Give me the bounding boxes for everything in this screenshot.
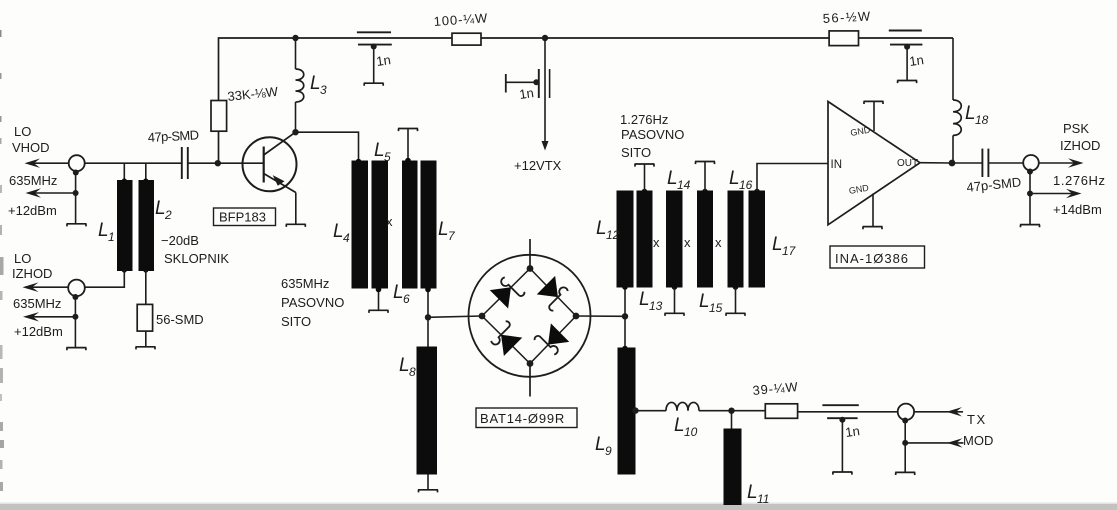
svg-text:+12dBm: +12dBm bbox=[8, 203, 57, 218]
connector J4 PSK bbox=[1023, 155, 1039, 171]
node base junction bbox=[215, 160, 221, 166]
resistor R 100-1/4W bbox=[452, 33, 481, 45]
node J2 ground stem bbox=[72, 294, 78, 300]
svg-text:1n: 1n bbox=[375, 52, 391, 69]
svg-text:L: L bbox=[438, 219, 449, 240]
node L3 top bbox=[292, 35, 298, 41]
resistor 56-SMD bbox=[137, 304, 152, 331]
ground R56 bbox=[136, 347, 156, 350]
ground C4 bbox=[832, 472, 852, 475]
node mixer bottom bbox=[527, 360, 534, 367]
svg-text:VHOD: VHOD bbox=[12, 140, 50, 155]
svg-text:18: 18 bbox=[975, 113, 989, 127]
wire amp bottom gnd pin bbox=[872, 194, 874, 227]
svg-text:TX: TX bbox=[967, 412, 987, 427]
svg-text:PASOVNO: PASOVNO bbox=[281, 295, 344, 310]
svg-text:L: L bbox=[310, 73, 321, 94]
ground L8 bbox=[418, 490, 438, 493]
node OUT junction bbox=[949, 160, 956, 167]
capacitor C4 1n TX bbox=[822, 404, 858, 406]
svg-text:x: x bbox=[715, 235, 722, 250]
svg-text:IZHOD: IZHOD bbox=[1060, 138, 1100, 153]
diode D3 bottom-right bbox=[534, 323, 570, 359]
wire TX arrow bbox=[914, 411, 963, 413]
stripline L4 bbox=[352, 161, 369, 289]
wire +12VTX bbox=[544, 38, 546, 146]
wire L6 top stub bbox=[407, 129, 409, 162]
diode D1 top-left bbox=[490, 274, 526, 310]
resistor R 39-1/4W bbox=[765, 404, 797, 419]
wire MOD arrow bbox=[905, 442, 963, 444]
stripline L7 bbox=[421, 161, 437, 289]
wire +12dBm arrow 2 bbox=[27, 316, 75, 318]
node mixer left bbox=[479, 313, 486, 320]
resistor R 33K-1/8W bbox=[211, 101, 227, 132]
connector J3 TX MOD bbox=[898, 404, 914, 420]
node mixer right junction bbox=[622, 313, 628, 319]
ground J2 bbox=[66, 348, 86, 351]
node +12dBm tap bbox=[73, 190, 79, 196]
label box INA-10386 bbox=[830, 246, 925, 268]
node mixer top bbox=[527, 265, 534, 272]
svg-text:+14dBm: +14dBm bbox=[1053, 202, 1102, 217]
node collector junction wire to L4 bbox=[296, 132, 359, 161]
ground L16 bbox=[726, 313, 746, 316]
ground L14 bbox=[665, 313, 685, 316]
node collector bbox=[292, 129, 298, 135]
label box BAT14-099R bbox=[476, 408, 577, 428]
wire rail corner to L18 bbox=[952, 38, 954, 100]
node +14dBm tap bbox=[1027, 191, 1033, 197]
mixer diamond wires bbox=[482, 269, 576, 364]
node L9 tap bbox=[632, 407, 638, 413]
wire L1 bottom to J2 bbox=[85, 270, 125, 287]
scanner shadow bottom bbox=[0, 504, 1117, 510]
svg-text:SITO: SITO bbox=[281, 314, 311, 329]
wire PSK arrow bbox=[1039, 162, 1080, 164]
stripline L17 bbox=[749, 191, 766, 288]
svg-text:17: 17 bbox=[782, 244, 797, 258]
wire mixer top stub bbox=[529, 239, 531, 269]
ground emitter bbox=[286, 224, 306, 227]
ground L6 bbox=[398, 129, 418, 132]
svg-text:L: L bbox=[772, 234, 783, 255]
stripline L8 bbox=[417, 347, 438, 475]
capacitor C1 47p-SMD bbox=[181, 147, 183, 179]
stripline L12 bbox=[617, 191, 634, 288]
svg-text:L: L bbox=[639, 289, 650, 310]
svg-text:+12dBm: +12dBm bbox=[14, 324, 63, 339]
ground L15 bbox=[695, 162, 715, 165]
wire down to L1 top bbox=[123, 163, 125, 181]
capacitor C6 47p-SMD bbox=[981, 149, 983, 177]
svg-text:16: 16 bbox=[739, 178, 753, 192]
svg-text:14: 14 bbox=[677, 178, 691, 192]
svg-text:15: 15 bbox=[709, 301, 723, 315]
label box BFP183 bbox=[214, 208, 276, 226]
wire L14 bottom stub bbox=[674, 288, 676, 314]
wire L2 bottom to R 56 bbox=[145, 270, 147, 304]
svg-text:9: 9 bbox=[605, 444, 612, 458]
wire R39 to TX port bbox=[798, 411, 898, 413]
svg-text:1: 1 bbox=[108, 230, 115, 244]
node +12V junction bbox=[542, 35, 548, 41]
stripline L6 bbox=[402, 161, 418, 289]
svg-text:BFP183: BFP183 bbox=[219, 210, 266, 225]
svg-text:L: L bbox=[333, 221, 344, 242]
svg-text:L: L bbox=[399, 355, 410, 376]
svg-text:5: 5 bbox=[384, 150, 391, 164]
svg-text:L: L bbox=[374, 140, 385, 161]
stripline L5 bbox=[372, 161, 389, 289]
op-amp U2 INA-10386 bbox=[828, 102, 920, 225]
wire J1 to coupler bbox=[85, 162, 181, 164]
wire L9 stub bbox=[624, 316, 626, 348]
wire L12 bottom stub bbox=[624, 288, 626, 317]
svg-text:IZHOD: IZHOD bbox=[12, 266, 52, 281]
connector J1 LO VHOD bbox=[69, 155, 85, 171]
wire out to C6 bbox=[952, 162, 982, 164]
inductor L18 bbox=[953, 100, 961, 135]
inductor L10 bbox=[666, 402, 699, 410]
svg-text:8: 8 bbox=[409, 365, 416, 379]
ground amp top bbox=[864, 101, 884, 104]
svg-text:PASOVNO: PASOVNO bbox=[621, 127, 684, 142]
stripline L13 bbox=[637, 191, 653, 288]
svg-text:x: x bbox=[653, 235, 660, 250]
wire L16 bottom stub bbox=[735, 288, 737, 314]
svg-text:L: L bbox=[393, 282, 404, 303]
svg-text:L: L bbox=[747, 482, 758, 503]
svg-text:L: L bbox=[98, 220, 109, 241]
stripline L2 bbox=[139, 180, 155, 271]
svg-text:12: 12 bbox=[606, 228, 620, 242]
svg-text:L: L bbox=[965, 103, 976, 124]
wire +12dBm arrow bbox=[30, 192, 76, 194]
capacitor C2 1n bypass bbox=[357, 31, 391, 33]
svg-text:10: 10 bbox=[684, 425, 698, 439]
wire +14dBm arrow bbox=[1030, 193, 1078, 195]
svg-text:OUT: OUT bbox=[897, 158, 918, 169]
ground L13 bbox=[635, 164, 655, 167]
wire L8 stub bbox=[427, 317, 429, 347]
svg-text:1n: 1n bbox=[908, 52, 924, 69]
wire L10 to R39 bbox=[699, 410, 765, 412]
svg-text:1n: 1n bbox=[844, 423, 860, 440]
svg-text:L: L bbox=[595, 434, 606, 455]
capacitor C3 1n on +12V bbox=[538, 69, 540, 98]
svg-text:3: 3 bbox=[320, 83, 327, 97]
svg-text:SITO: SITO bbox=[621, 145, 651, 160]
svg-text:13: 13 bbox=[649, 299, 663, 313]
stripline L1 bbox=[117, 180, 133, 271]
svg-text:1n: 1n bbox=[518, 85, 534, 102]
ground L5 bbox=[369, 310, 389, 313]
svg-text:−20dB: −20dB bbox=[161, 233, 199, 248]
node mixer right bbox=[573, 313, 580, 320]
ground J3 bbox=[895, 472, 915, 475]
svg-text:L: L bbox=[674, 415, 685, 436]
scan artifacts left edge bbox=[0, 30, 2, 37]
wire L17 top to amp IN bbox=[757, 164, 828, 192]
stripline L16 bbox=[728, 191, 744, 288]
wire junction to mixer left bbox=[428, 316, 482, 317]
node L11 junction bbox=[728, 408, 734, 414]
wire LO IZHOD arrow bbox=[26, 286, 68, 288]
wire L7 bottom to mixer bbox=[427, 289, 429, 318]
svg-text:6: 6 bbox=[403, 292, 410, 306]
stripline L9 bbox=[618, 348, 636, 475]
wire mixer right to junction bbox=[576, 315, 625, 317]
wire mixer bottom stub bbox=[529, 364, 531, 397]
svg-text:MOD: MOD bbox=[963, 433, 993, 448]
wire down to L2 top bbox=[145, 163, 147, 181]
svg-text:1.276Hz: 1.276Hz bbox=[1053, 173, 1106, 188]
svg-text:IN: IN bbox=[831, 159, 843, 171]
svg-text:LO: LO bbox=[14, 124, 31, 139]
svg-text:56-SMD: 56-SMD bbox=[156, 312, 204, 327]
wire LO VHOD input bbox=[28, 162, 69, 164]
ground J1 bbox=[67, 224, 87, 227]
svg-text:L: L bbox=[596, 218, 607, 239]
wire amp out bbox=[920, 162, 952, 164]
wire L9 to L10 bbox=[636, 410, 667, 412]
wire emitter to ground bbox=[295, 193, 297, 225]
svg-text:1.276Hz: 1.276Hz bbox=[620, 112, 668, 127]
svg-text:INA-1Ø386: INA-1Ø386 bbox=[835, 251, 909, 266]
svg-text:x: x bbox=[386, 214, 393, 229]
diode D2 top-right bbox=[536, 276, 572, 312]
svg-text:2: 2 bbox=[164, 208, 172, 222]
diode D4 bottom-left bbox=[487, 320, 523, 356]
stripline L11 bbox=[724, 429, 742, 506]
svg-text:BAT14-Ø99R: BAT14-Ø99R bbox=[480, 411, 565, 426]
svg-text:635MHz: 635MHz bbox=[281, 276, 329, 291]
transistor Q1 BFP183 bbox=[243, 137, 297, 191]
capacitor C5 1n bbox=[889, 30, 922, 32]
ground amp bottom bbox=[863, 227, 883, 230]
ground C2 bbox=[364, 83, 384, 86]
node J3 ground bbox=[902, 418, 908, 424]
wire C1 to base bbox=[188, 162, 264, 164]
svg-text:L: L bbox=[155, 198, 166, 219]
wire top supply rail bbox=[219, 38, 954, 163]
svg-text:11: 11 bbox=[757, 492, 769, 506]
wire C6 to J4 bbox=[988, 162, 1023, 164]
node MOD tap bbox=[902, 440, 908, 446]
svg-text:47p-SMD: 47p-SMD bbox=[147, 127, 199, 145]
stripline L15 bbox=[697, 191, 713, 288]
svg-text:L: L bbox=[729, 168, 740, 189]
wire L15 top stub bbox=[704, 162, 706, 192]
node mixer left junction bbox=[425, 314, 431, 320]
node J4 ground bbox=[1027, 169, 1033, 175]
svg-text:4: 4 bbox=[343, 231, 350, 245]
connector J2 LO IZHOD bbox=[68, 280, 85, 297]
node +12dBm tap 2 bbox=[72, 314, 78, 320]
resistor R 56-1/2W bbox=[829, 31, 858, 46]
wire L5 bottom stub bbox=[378, 289, 380, 311]
stripline L14 bbox=[666, 191, 683, 288]
wire amp top gnd pin bbox=[873, 102, 875, 131]
wire L13 top stub bbox=[644, 164, 646, 191]
svg-text:L: L bbox=[667, 168, 678, 189]
mixer U1 ring bbox=[469, 255, 591, 377]
svg-text:x: x bbox=[684, 235, 691, 250]
ground J4 bbox=[1020, 225, 1040, 228]
wire L11 stub bbox=[731, 411, 733, 429]
svg-text:SKLOPNIK: SKLOPNIK bbox=[164, 251, 229, 266]
svg-text:56-½W: 56-½W bbox=[822, 8, 872, 26]
svg-text:PSK: PSK bbox=[1063, 121, 1089, 136]
svg-text:+12VTX: +12VTX bbox=[514, 158, 562, 173]
ground C5 bbox=[897, 81, 917, 84]
svg-text:635MHz: 635MHz bbox=[9, 173, 57, 188]
node J1 ground stem bbox=[73, 170, 79, 176]
svg-text:L: L bbox=[699, 291, 710, 312]
svg-text:635MHz: 635MHz bbox=[13, 296, 61, 311]
svg-text:LO: LO bbox=[14, 251, 31, 266]
inductor L3 bbox=[295, 38, 297, 69]
